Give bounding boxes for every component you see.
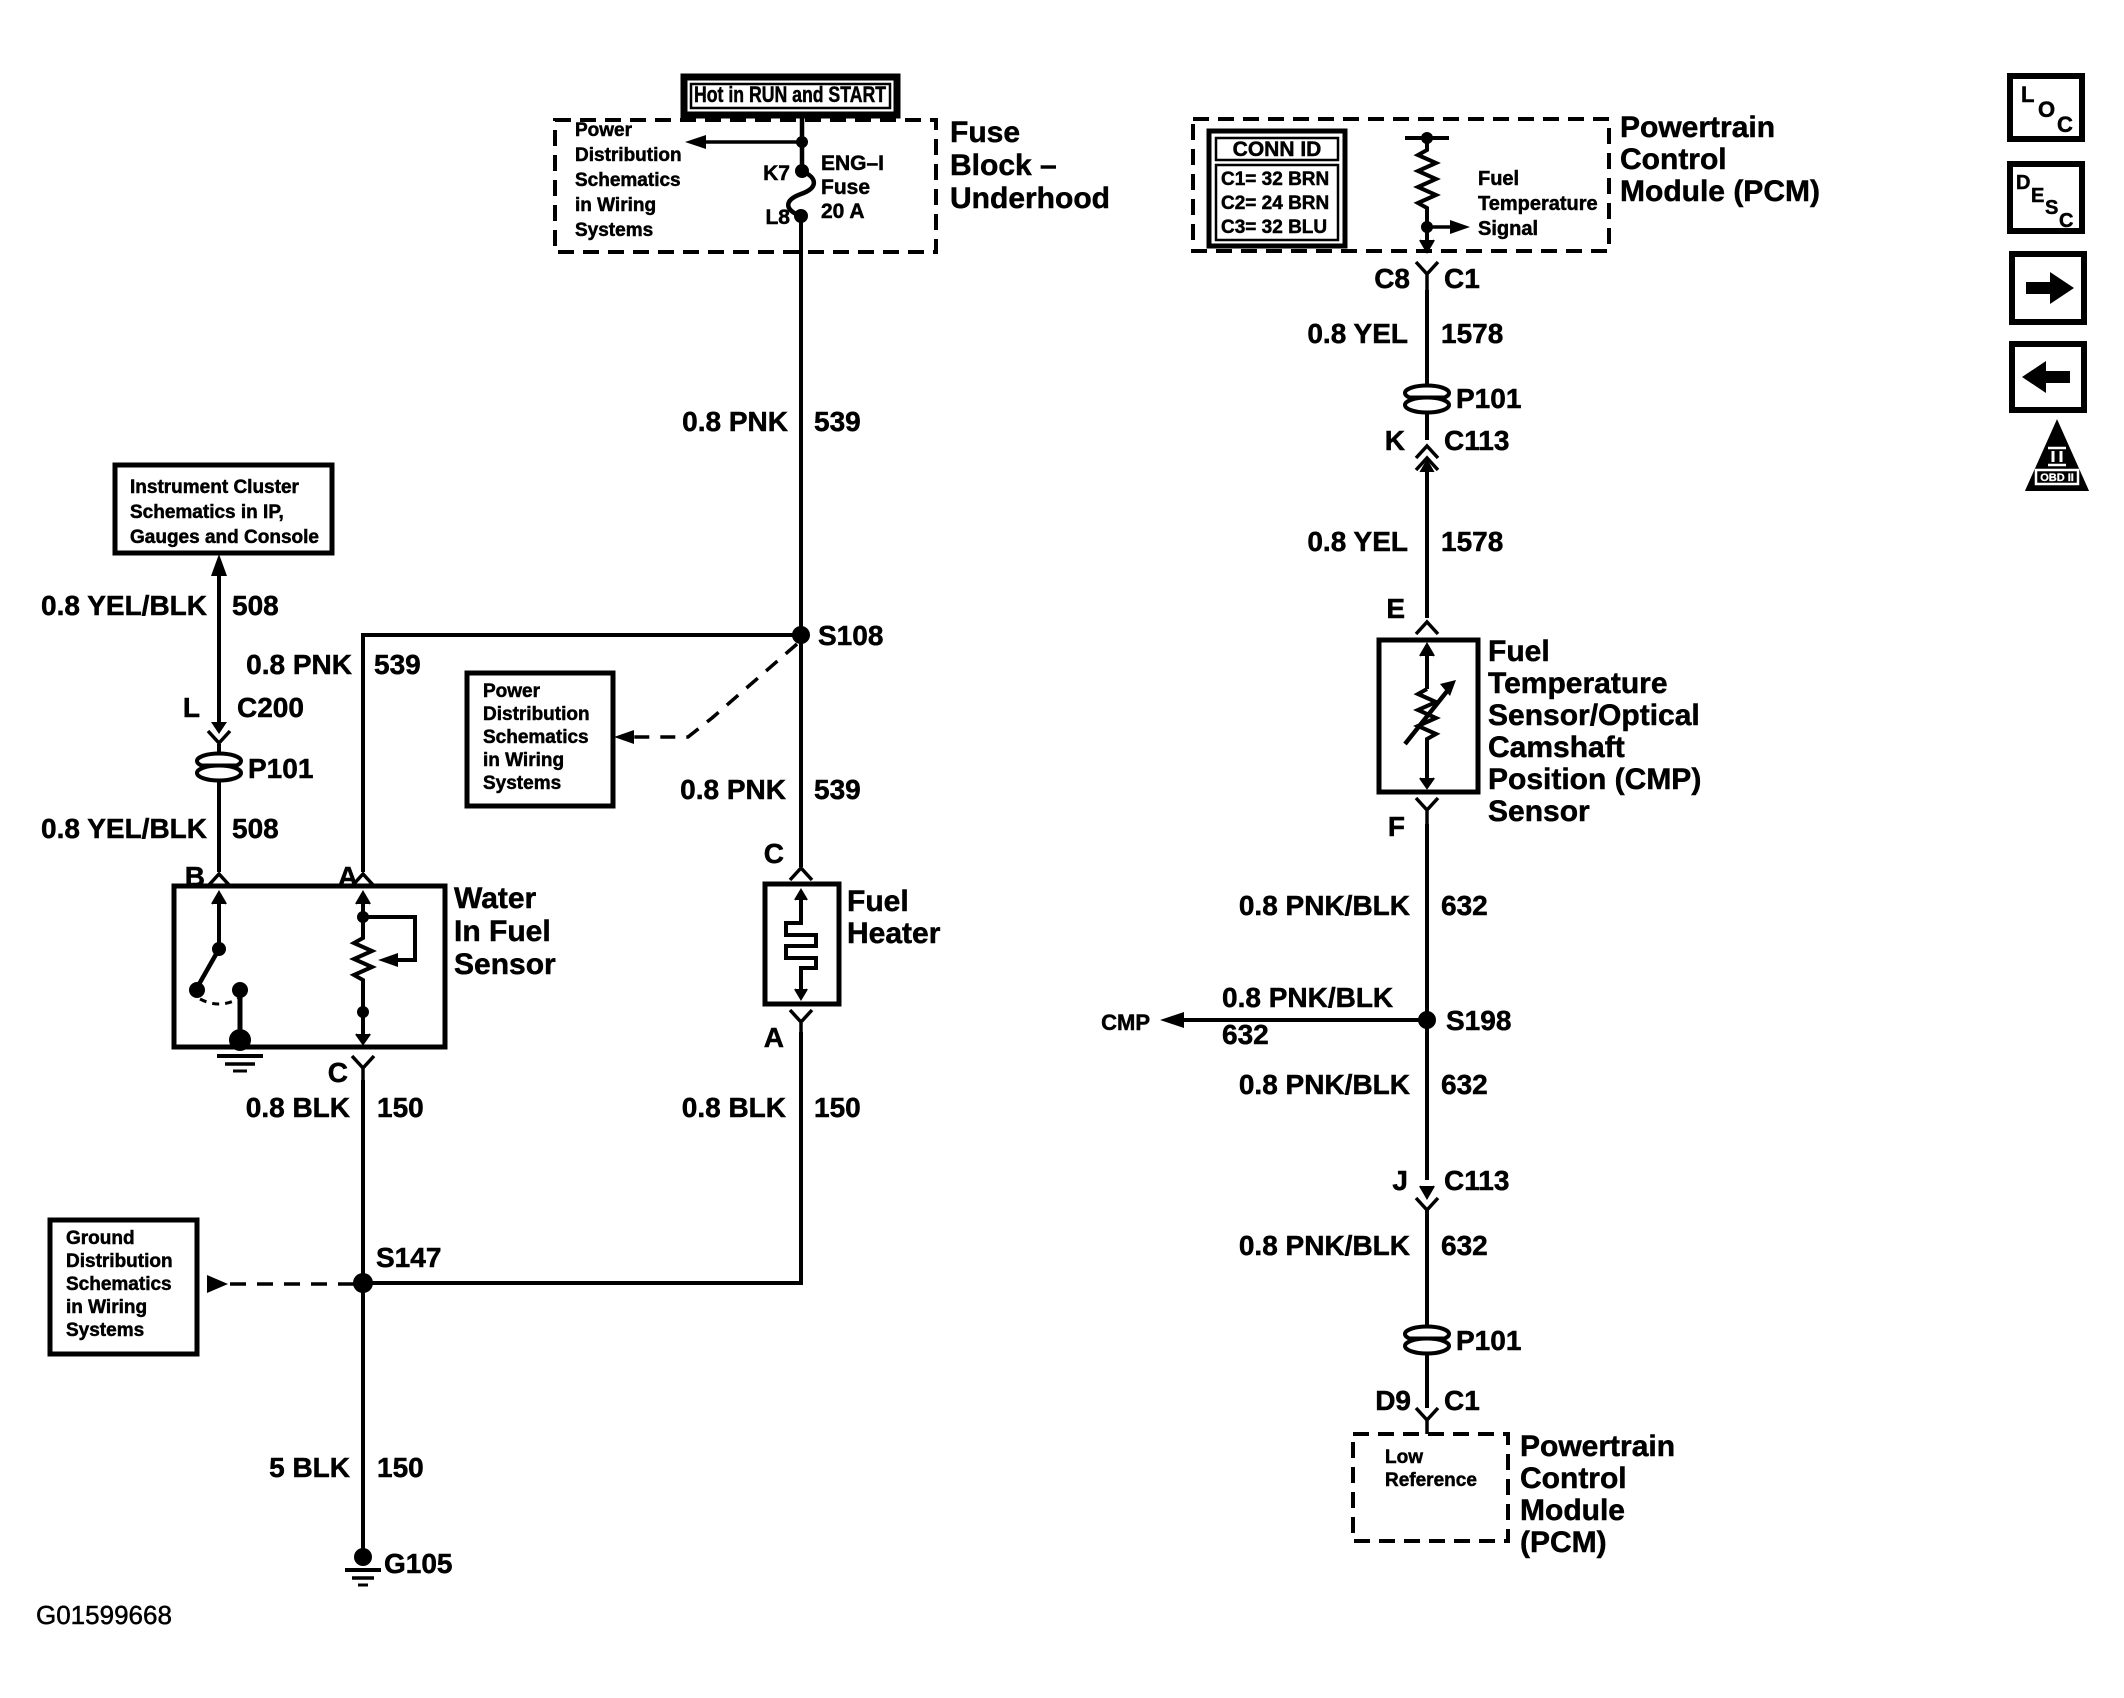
- svg-text:CMP: CMP: [1101, 1010, 1150, 1035]
- svg-text:C2= 24 BRN: C2= 24 BRN: [1221, 193, 1329, 214]
- CMP branch wire: [1101, 982, 1427, 1050]
- svg-text:K: K: [1385, 425, 1405, 456]
- svg-text:539: 539: [814, 406, 861, 437]
- wire 0.8 PNK 539 (S108 down to fuel heater): [799, 635, 803, 867]
- svg-text:Gauges and Console: Gauges and Console: [130, 527, 319, 548]
- svg-text:In Fuel: In Fuel: [454, 915, 551, 948]
- svg-text:C3= 32 BLU: C3= 32 BLU: [1221, 217, 1327, 238]
- forward arrow button: [2012, 254, 2084, 322]
- svg-text:Temperature: Temperature: [1488, 667, 1668, 700]
- svg-text:O: O: [2038, 97, 2055, 122]
- svg-text:Powertrain: Powertrain: [1620, 111, 1775, 144]
- water in fuel sensor box: [174, 886, 445, 1047]
- dashed reference arrow from ground box to S147: [207, 1275, 355, 1293]
- splice P101 (right upper): [1405, 383, 1521, 414]
- node S108: [792, 626, 810, 644]
- PCM exit wire with down arrow: [1420, 227, 1434, 252]
- svg-text:P101: P101: [248, 753, 313, 784]
- splice P101 (left): [197, 753, 313, 784]
- PCM pull-up resistor: [1405, 132, 1449, 233]
- svg-text:C8: C8: [1374, 263, 1410, 294]
- svg-text:E: E: [2031, 185, 2044, 207]
- wire 0.8 YEL/BLK 508 upper: [217, 572, 221, 722]
- svg-text:632: 632: [1441, 1069, 1488, 1100]
- svg-text:Reference: Reference: [1385, 1470, 1477, 1491]
- svg-text:Schematics in IP,: Schematics in IP,: [130, 502, 284, 523]
- svg-text:F: F: [1388, 811, 1405, 842]
- svg-text:C1= 32 BRN: C1= 32 BRN: [1221, 169, 1329, 190]
- svg-text:OBD II: OBD II: [2040, 472, 2074, 484]
- svg-text:0.8 PNK/BLK: 0.8 PNK/BLK: [1222, 982, 1393, 1013]
- svg-text:0.8 PNK: 0.8 PNK: [680, 774, 786, 805]
- wire 0.8 BLK 150 (sensor to S147): [361, 1080, 365, 1283]
- svg-text:P101: P101: [1456, 383, 1521, 414]
- svg-text:CONN ID: CONN ID: [1233, 138, 1322, 161]
- connector C (water sensor bottom): [352, 1056, 374, 1080]
- svg-text:Distribution: Distribution: [483, 704, 590, 725]
- splice P101 (right lower): [1405, 1325, 1521, 1356]
- svg-text:0.8 PNK/BLK: 0.8 PNK/BLK: [1239, 1230, 1410, 1261]
- svg-text:Fuse: Fuse: [821, 176, 870, 199]
- Hot in RUN and START banner: [684, 77, 897, 115]
- svg-text:Sensor: Sensor: [454, 948, 556, 981]
- svg-text:Distribution: Distribution: [66, 1251, 173, 1272]
- svg-text:Module (PCM): Module (PCM): [1620, 175, 1820, 208]
- svg-text:Water: Water: [454, 882, 537, 915]
- wire 0.8 BLK 150 (heater down to S147 corner): [364, 1032, 801, 1283]
- wire from banner into fuse block: [800, 115, 805, 171]
- svg-text:0.8 YEL/BLK: 0.8 YEL/BLK: [41, 813, 207, 844]
- water sensor internal ground: [217, 990, 263, 1071]
- svg-text:L: L: [2021, 82, 2034, 107]
- svg-text:Low: Low: [1385, 1447, 1423, 1468]
- svg-text:20 A: 20 A: [821, 200, 865, 223]
- connector B (water sensor): [208, 874, 230, 886]
- svg-text:S108: S108: [818, 620, 883, 651]
- svg-text:508: 508: [232, 813, 279, 844]
- svg-text:ENG–I: ENG–I: [821, 152, 884, 175]
- svg-text:150: 150: [814, 1092, 861, 1123]
- ground G105: [345, 1548, 453, 1585]
- ground distribution reference box: [50, 1220, 197, 1354]
- water sensor resistor (A branch): [354, 892, 415, 1044]
- svg-text:in Wiring: in Wiring: [575, 195, 656, 216]
- svg-text:S198: S198: [1446, 1005, 1511, 1036]
- back arrow button: [2012, 344, 2084, 410]
- svg-text:Underhood: Underhood: [950, 182, 1110, 215]
- low reference dashed box (PCM bottom): [1353, 1434, 1508, 1541]
- svg-text:0.8 PNK/BLK: 0.8 PNK/BLK: [1239, 1069, 1410, 1100]
- fuel heater box: [765, 884, 839, 1004]
- instrument cluster reference box: [115, 465, 332, 553]
- wire 0.8 YEL 1578 lower: [1425, 468, 1429, 618]
- connector C200: [183, 692, 304, 743]
- svg-text:0.8 YEL: 0.8 YEL: [1307, 318, 1408, 349]
- svg-text:0.8 PNK: 0.8 PNK: [682, 406, 788, 437]
- wire 0.8 YEL 1578 upper: [1425, 290, 1429, 384]
- svg-text:Control: Control: [1520, 1462, 1627, 1495]
- svg-text:5 BLK: 5 BLK: [269, 1452, 350, 1483]
- svg-text:K7: K7: [763, 162, 790, 185]
- svg-text:0.8 YEL: 0.8 YEL: [1307, 526, 1408, 557]
- svg-text:Powertrain: Powertrain: [1520, 1430, 1675, 1463]
- svg-text:Distribution: Distribution: [575, 145, 682, 166]
- fuse block underhood dashed box: [555, 120, 936, 252]
- svg-text:Fuel: Fuel: [847, 885, 909, 918]
- svg-text:Control: Control: [1620, 143, 1727, 176]
- fuel heater element: [786, 890, 816, 999]
- wire S108 branch to left (0.8 PNK 539): [363, 635, 801, 872]
- svg-text:Power: Power: [575, 120, 633, 141]
- svg-text:C113: C113: [1444, 425, 1509, 456]
- svg-text:Fuse: Fuse: [950, 116, 1020, 149]
- connector K / C113: [1385, 412, 1510, 472]
- svg-text:Temperature: Temperature: [1478, 193, 1598, 215]
- svg-text:0.8 BLK: 0.8 BLK: [246, 1092, 350, 1123]
- svg-text:G01599668: G01599668: [36, 1600, 172, 1630]
- svg-text:0.8 PNK/BLK: 0.8 PNK/BLK: [1239, 890, 1410, 921]
- svg-text:0.8 BLK: 0.8 BLK: [682, 1092, 786, 1123]
- connector A (water sensor): [352, 874, 374, 886]
- connector D9 / C1: [1375, 1385, 1480, 1434]
- fuel temperature sensor box: [1379, 640, 1478, 792]
- wire 5 BLK 150 (S147 to G105): [361, 1283, 365, 1550]
- connector E: [1386, 593, 1438, 634]
- svg-text:C: C: [764, 838, 784, 869]
- svg-text:Signal: Signal: [1478, 218, 1538, 240]
- node S198: [1418, 1011, 1436, 1029]
- node S147: [353, 1273, 373, 1293]
- svg-text:A: A: [764, 1022, 784, 1053]
- connector C (fuel heater): [790, 868, 812, 880]
- wire to splice: [217, 744, 221, 756]
- svg-text:Schematics: Schematics: [575, 170, 681, 191]
- wire 0.8 PNK/BLK 632 (F to S198): [1425, 824, 1429, 1020]
- fuel temp sensor thermistor: [1405, 644, 1456, 788]
- svg-text:Position (CMP): Position (CMP): [1488, 763, 1701, 796]
- svg-text:Sensor/Optical: Sensor/Optical: [1488, 699, 1700, 732]
- svg-text:in Wiring: in Wiring: [66, 1297, 147, 1318]
- powertrain control module dashed box (top): [1193, 119, 1609, 251]
- svg-text:in Wiring: in Wiring: [483, 750, 564, 771]
- arrow up to instrument cluster: [211, 554, 227, 576]
- connector J / C113: [1392, 1165, 1509, 1210]
- svg-text:Camshaft: Camshaft: [1488, 731, 1625, 764]
- svg-text:C: C: [2057, 112, 2073, 137]
- svg-text:632: 632: [1222, 1019, 1269, 1050]
- svg-text:C113: C113: [1444, 1165, 1509, 1196]
- wire 0.8 PNK 539 (fuse to S108): [799, 216, 803, 635]
- svg-text:Sensor: Sensor: [1488, 795, 1590, 828]
- svg-text:Module: Module: [1520, 1494, 1625, 1527]
- fuse ENG-I 20A: [763, 152, 884, 229]
- dashed reference arrow from S108 to power distribution box: [614, 644, 797, 744]
- OBD II symbol: [2028, 424, 2086, 489]
- svg-text:C: C: [2059, 210, 2073, 232]
- wire 0.8 PNK/BLK 632 (S198 to C113): [1425, 1020, 1429, 1180]
- svg-text:C200: C200: [237, 692, 304, 723]
- svg-text:C: C: [328, 1057, 348, 1088]
- CONN ID table: [1209, 131, 1345, 246]
- svg-text:Schematics: Schematics: [66, 1274, 172, 1295]
- power distribution schematics box (middle): [467, 673, 613, 806]
- svg-text:0.8 PNK: 0.8 PNK: [246, 649, 352, 680]
- svg-text:0.8 YEL/BLK: 0.8 YEL/BLK: [41, 590, 207, 621]
- svg-text:S: S: [2045, 197, 2058, 219]
- svg-text:S147: S147: [376, 1242, 441, 1273]
- fuel temperature signal arrow: [1427, 168, 1598, 240]
- connector A (fuel heater bottom): [790, 1010, 812, 1032]
- connector F: [1388, 798, 1438, 842]
- svg-text:Fuel: Fuel: [1488, 635, 1550, 668]
- svg-text:539: 539: [814, 774, 861, 805]
- svg-text:D: D: [2016, 172, 2030, 194]
- svg-text:1578: 1578: [1441, 526, 1503, 557]
- svg-text:E: E: [1386, 593, 1405, 624]
- svg-text:150: 150: [377, 1092, 424, 1123]
- svg-text:Instrument Cluster: Instrument Cluster: [130, 477, 300, 498]
- svg-text:Ground: Ground: [66, 1228, 135, 1249]
- svg-text:632: 632: [1441, 1230, 1488, 1261]
- svg-text:Heater: Heater: [847, 917, 941, 950]
- water sensor switch (B branch): [189, 892, 248, 1004]
- svg-text:G105: G105: [384, 1548, 453, 1579]
- svg-text:C1: C1: [1444, 1385, 1480, 1416]
- svg-text:(PCM): (PCM): [1520, 1526, 1607, 1559]
- svg-text:Hot in RUN and START: Hot in RUN and START: [694, 82, 886, 107]
- svg-text:P101: P101: [1456, 1325, 1521, 1356]
- svg-text:508: 508: [232, 590, 279, 621]
- svg-text:Schematics: Schematics: [483, 727, 589, 748]
- connector C8 / C1: [1374, 262, 1480, 294]
- svg-text:Systems: Systems: [66, 1320, 144, 1341]
- svg-text:J: J: [1392, 1165, 1408, 1196]
- wire 0.8 YEL/BLK 508 lower: [217, 780, 221, 872]
- svg-text:1578: 1578: [1441, 318, 1503, 349]
- svg-text:Power: Power: [483, 681, 541, 702]
- svg-text:L8: L8: [765, 206, 790, 229]
- svg-text:Systems: Systems: [575, 220, 653, 241]
- svg-text:150: 150: [377, 1452, 424, 1483]
- svg-text:D9: D9: [1375, 1385, 1411, 1416]
- DESC button: [2010, 164, 2082, 232]
- LOC button: [2010, 76, 2082, 139]
- branch arrow to power distribution note: [685, 135, 808, 149]
- svg-text:C1: C1: [1444, 263, 1480, 294]
- wire 0.8 PNK/BLK 632 (C113 to P101): [1425, 1208, 1429, 1326]
- svg-text:539: 539: [374, 649, 421, 680]
- svg-text:Block –: Block –: [950, 149, 1057, 182]
- svg-text:632: 632: [1441, 890, 1488, 921]
- svg-text:Fuel: Fuel: [1478, 168, 1519, 190]
- svg-text:Systems: Systems: [483, 773, 561, 794]
- svg-text:L: L: [183, 692, 200, 723]
- wire P101 to D9: [1425, 1353, 1429, 1408]
